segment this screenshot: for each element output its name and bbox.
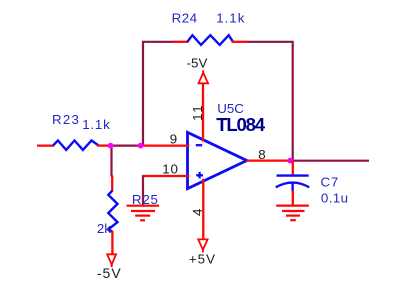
wire: feedback net, left vertical + top-left horizontal [143, 42, 175, 147]
svg-text:+5V: +5V [189, 251, 216, 266]
capacitor C7 ground lead [292, 191, 294, 205]
wire: output to right [290, 160, 369, 162]
junction dot output [287, 158, 293, 164]
svg-text:0.1u: 0.1u [321, 191, 349, 206]
ground symbol (C7) [276, 206, 309, 221]
svg-text:R23: R23 [52, 112, 80, 127]
svg-text:1: 1 [190, 105, 205, 112]
svg-text:C7: C7 [321, 174, 340, 189]
svg-text:2k: 2k [97, 221, 111, 236]
op-amp U5C non-inverting input marker [196, 172, 203, 179]
svg-text:1.1k: 1.1k [216, 11, 245, 26]
resistor R25 bottom lead [111, 231, 113, 254]
resistor R24 left lead [174, 41, 189, 43]
op-amp pin 10 stub [143, 175, 190, 177]
wire: node A to feedback junction [109, 145, 143, 147]
svg-text:4: 4 [190, 208, 205, 216]
wire: feedback net, top-right horizontal + right vertical [246, 42, 293, 161]
svg-text:-5V: -5V [97, 265, 122, 281]
svg-text:1.1k: 1.1k [82, 117, 110, 132]
op-amp pin 4 stub [202, 179, 204, 240]
svg-text:TL084: TL084 [216, 114, 265, 135]
resistor R23 body [53, 141, 99, 150]
wire: node A down to resistor R25 [110, 145, 112, 177]
svg-text:9: 9 [170, 132, 177, 147]
junction dot feedback/input [138, 143, 144, 149]
resistor R24 body [187, 35, 233, 45]
capacitor C7 top lead [292, 161, 294, 176]
capacitor C7 bottom plate (curved) [276, 183, 309, 188]
wire: pin 10 to ground, vertical [142, 175, 144, 206]
resistor R23 right lead [97, 144, 110, 146]
op-amp U5C inverting input marker [196, 144, 202, 146]
svg-text:R25: R25 [132, 192, 159, 207]
op-amp pin 8 stub [247, 159, 291, 161]
capacitor C7 bottom stub [291, 183, 293, 191]
resistor R24 right lead [232, 41, 248, 43]
wire: input lead into R23 [37, 144, 55, 146]
op-amp U5C body [188, 132, 247, 188]
power symbol -5V arrow (below R25) [107, 254, 116, 267]
power symbol -5V arrow (top, pin 11) [199, 70, 209, 83]
svg-text:R24: R24 [172, 11, 198, 26]
capacitor C7 top plate [277, 174, 309, 176]
svg-text:1: 1 [190, 113, 205, 120]
svg-text:10: 10 [162, 162, 179, 177]
svg-text:-5V: -5V [187, 56, 208, 71]
power symbol +5V arrow (bottom, pin 4) [198, 239, 207, 252]
resistor R25 top lead [111, 176, 113, 192]
svg-text:8: 8 [258, 147, 265, 162]
op-amp pin 9 stub [143, 144, 190, 146]
op-amp pin 11 stub [202, 83, 204, 142]
resistor R25 body (2k) [108, 191, 117, 232]
junction dot node A [108, 143, 114, 149]
ground symbol (pin 10) [127, 206, 160, 221]
